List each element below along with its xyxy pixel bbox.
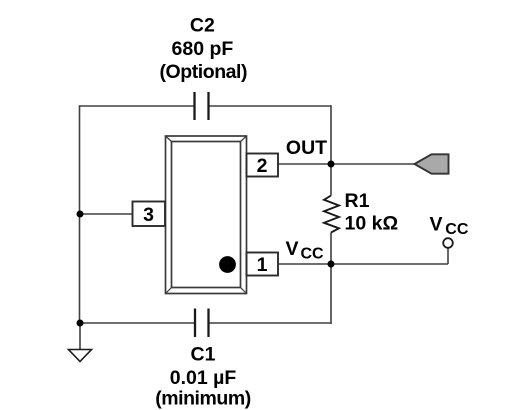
svg-text:V: V bbox=[430, 214, 443, 236]
svg-text:(minimum): (minimum) bbox=[155, 388, 251, 410]
svg-text:1: 1 bbox=[257, 254, 268, 276]
svg-text:(Optional): (Optional) bbox=[160, 61, 248, 83]
svg-text:OUT: OUT bbox=[286, 137, 327, 159]
svg-text:10 kΩ: 10 kΩ bbox=[345, 213, 399, 235]
svg-text:3: 3 bbox=[143, 204, 154, 226]
svg-text:CC: CC bbox=[445, 221, 469, 238]
svg-text:R1: R1 bbox=[345, 190, 370, 212]
svg-text:0.01 µF: 0.01 µF bbox=[170, 367, 237, 389]
svg-text:2: 2 bbox=[257, 155, 268, 177]
svg-text:C1: C1 bbox=[191, 344, 216, 366]
svg-text:CC: CC bbox=[301, 246, 325, 263]
svg-text:C2: C2 bbox=[190, 15, 215, 37]
svg-text:V: V bbox=[286, 238, 299, 260]
svg-text:680 pF: 680 pF bbox=[172, 38, 234, 60]
